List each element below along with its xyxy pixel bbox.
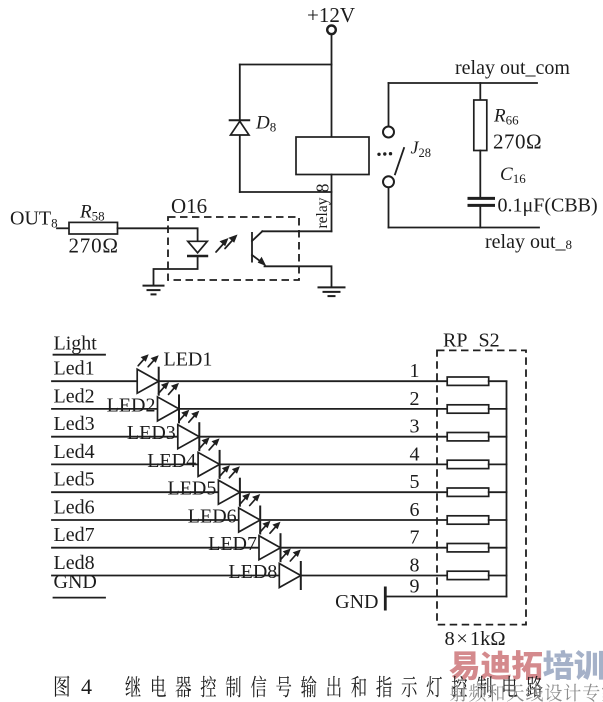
wire top branch to D8 [240,64,332,66]
LED LED4 [198,450,220,479]
resistor RP element 5 [447,488,489,496]
capacitor C16 [468,198,496,205]
svg-text:5: 5 [410,471,420,493]
LED2 light arrows [159,382,180,395]
svg-text:Led7: Led7 [54,524,95,546]
svg-text:Led5: Led5 [54,469,95,491]
LED LED5 [218,478,240,507]
wire C16 to bottom rail [479,207,481,228]
resistor RP element 8 [447,571,489,579]
wire Led3 row [52,436,447,438]
resistor R66 [474,100,487,151]
svg-text:270Ω: 270Ω [493,130,542,154]
wire RP element 6 to bus [489,519,507,521]
GND terminal bar [384,587,387,611]
svg-text:LED6: LED6 [188,506,237,528]
wire RP element 8 to bus [489,575,507,577]
svg-text:Led1: Led1 [54,358,95,380]
svg-text:LED1: LED1 [164,349,213,371]
wire Led7 row [52,547,447,549]
relay coil box [296,137,369,175]
wire rail to switch top [388,83,390,126]
svg-text:LED4: LED4 [147,450,196,472]
svg-text:8: 8 [410,555,420,577]
resistor pack RP S2 dashed box [437,350,526,624]
wire Led4 row [52,463,447,465]
wire RP element 2 to bus [489,408,507,410]
resistor RP element 1 [447,377,489,385]
LED3 light arrows [179,410,200,423]
wire RP element 3 to bus [489,436,507,438]
LED1 light arrows [138,354,159,367]
resistor RP element 2 [447,405,489,413]
switch J28 bottom contact [383,176,394,187]
svg-text:2: 2 [410,388,420,410]
wire Led2 row [52,408,447,410]
svg-text:GND: GND [335,591,378,613]
wire pin 9 [387,596,507,598]
resistor RP element 4 [447,460,489,468]
ground (emitter) [318,287,346,296]
svg-text:1: 1 [410,360,420,382]
switch dots [377,152,392,156]
svg-text:LED5: LED5 [168,478,217,500]
wire D8 bottom branch [240,191,332,193]
switch J28 top contact [383,127,394,138]
watermark gray slogan [450,684,603,702]
svg-text:4: 4 [410,443,420,465]
opto LED [187,241,208,256]
svg-text:Led4: Led4 [54,441,95,463]
svg-text:relay out_8: relay out_8 [485,231,572,253]
svg-text:LED3: LED3 [127,422,176,444]
svg-text:LED8: LED8 [228,561,277,583]
svg-text:relay8: relay8 [313,184,333,229]
caption figure number [55,676,69,697]
svg-text:3: 3 [410,416,420,438]
svg-text:6: 6 [410,499,420,521]
LED LED8 [279,561,301,590]
wire RP element 7 to bus [489,547,507,549]
wire +12V down to relay coil [331,35,333,138]
switch J28 blade [395,148,404,174]
wire bottom rail relay out_8 [389,227,540,229]
LED LED2 [158,394,180,423]
svg-text:OUT8: OUT8 [10,208,58,231]
LED5 light arrows [219,465,240,478]
svg-text:270Ω: 270Ω [69,234,119,258]
resistor RP element 6 [447,516,489,524]
wire top rail relay out_com [389,82,538,84]
LED LED1 [137,367,159,396]
terminal +12V [327,26,336,35]
wire Led5 row [52,491,447,493]
svg-text:relay out_com: relay out_com [455,57,570,79]
svg-text:9: 9 [410,576,420,598]
wire switch bottom to bottom rail [388,188,390,228]
wire Light stub [54,354,106,356]
wire R66 top [479,83,481,100]
wire RP common bus [506,382,508,597]
wire LED cathode to ground [154,256,198,285]
svg-text:Light: Light [54,333,98,355]
wire Led1 row [52,380,447,382]
svg-text:0.1μF(CBB): 0.1μF(CBB) [498,195,598,217]
wire R58 to LED anode [118,228,198,241]
svg-text:LED2: LED2 [107,394,156,416]
resistor RP element 7 [447,544,489,552]
svg-text:O16: O16 [171,194,207,218]
LED7 light arrows [260,521,281,534]
wire RP element 1 to bus [489,380,507,382]
wire Led6 row [52,519,447,521]
LED4 light arrows [199,437,220,450]
svg-text:Led2: Led2 [54,385,95,407]
watermark red yiditop [449,650,603,680]
opto light arrows [216,235,238,253]
svg-text:7: 7 [410,527,420,549]
LED6 light arrows [240,493,261,506]
wire Led8 row [52,575,447,577]
LED LED7 [259,533,281,562]
wire D8 branch vertical [239,65,241,193]
wire R66 to C16 [479,151,481,197]
resistor R58 [69,222,118,234]
svg-text:Led3: Led3 [54,413,95,435]
LED LED3 [178,422,200,451]
svg-text:4: 4 [81,674,92,699]
LED LED6 [239,506,261,535]
wire RP element 5 to bus [489,491,507,493]
wire OUT8 to R58 [57,227,69,229]
wire RP element 4 to bus [489,463,507,465]
resistor RP element 3 [447,433,489,441]
ground (opto input) [143,286,165,295]
diode D8 [229,120,251,135]
caption text [125,676,542,698]
svg-text:Led6: Led6 [54,497,95,519]
svg-text:8×1kΩ: 8×1kΩ [445,628,506,650]
LED8 light arrows [280,549,301,562]
optocoupler O16 dashed box [168,217,299,280]
svg-text:+12V: +12V [307,3,355,27]
wire emitter to ground [265,266,332,287]
wire collector to relay node [262,230,331,232]
wire GND stub [54,597,106,599]
svg-text:LED7: LED7 [208,533,257,555]
svg-text:GND: GND [54,571,97,593]
wire relay coil to transistor collector [331,175,333,232]
opto phototransistor [252,231,266,266]
